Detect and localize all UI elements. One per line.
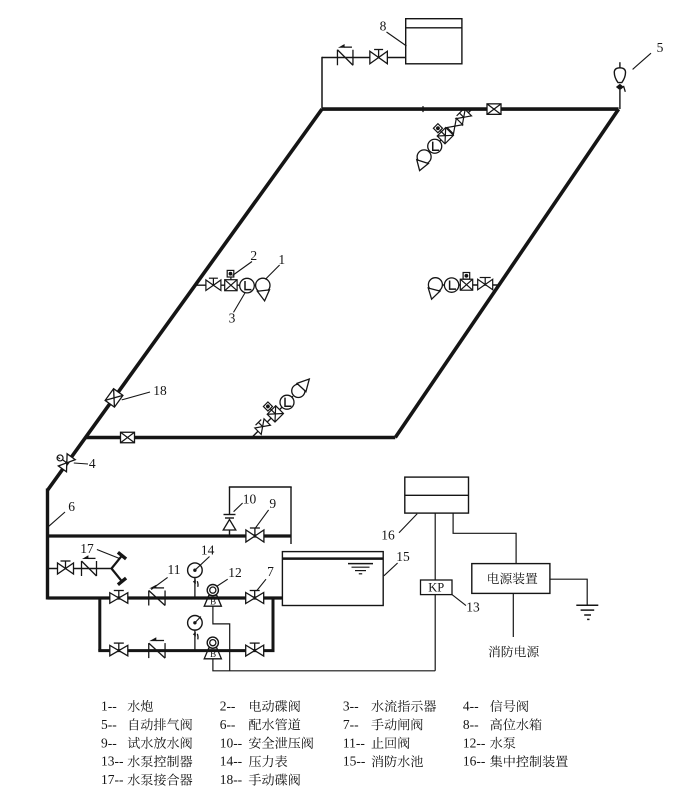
manual butterfly valve 18 on slant [105, 389, 123, 407]
wire pump2 to controller [213, 659, 435, 671]
water level symbol in pool [348, 563, 373, 565]
svg-text:2: 2 [250, 248, 257, 263]
svg-text:B: B [210, 649, 216, 659]
wire box16 to power device [453, 513, 516, 564]
leader for label 12 [217, 579, 228, 586]
wire KP down [434, 595, 436, 671]
fire pump 12 on line 1 [204, 595, 221, 606]
butterfly valve at tank 8 outlet [370, 51, 379, 64]
leader for label 17 [97, 550, 120, 559]
electric actuator on left branch [227, 270, 234, 277]
leader for label 18 [122, 392, 150, 400]
pump line 1 to line 2 right drop [272, 598, 275, 651]
leader for label 8 [387, 32, 407, 46]
svg-text:7--: 7-- [343, 717, 359, 732]
high level water tank 8 [406, 19, 462, 64]
water flow indicator on lower branch [280, 395, 294, 409]
svg-text:3--: 3-- [343, 699, 359, 714]
joint tick on top pipe [422, 106, 424, 112]
svg-text:3: 3 [229, 311, 236, 326]
svg-text:4--: 4-- [463, 699, 479, 714]
manual butterfly valve on upper branch [455, 108, 472, 125]
leader for label 10 [234, 503, 243, 512]
pump line 1 to line 2 left drop [98, 598, 101, 651]
check valve on coupler branch [81, 561, 83, 576]
water cannon on lower branch [292, 384, 305, 397]
pump coupler 17 (siamese) [112, 556, 123, 569]
leader for label 13 [452, 595, 466, 606]
stem to actuator [230, 277, 232, 280]
butterfly valve on upper branch [447, 118, 463, 134]
leader for label 11 [151, 577, 167, 589]
manual gate valve 7 on line 1 [246, 593, 255, 604]
wire power device to ground [550, 579, 587, 605]
main loop left slant pipe (extends to signal valve 4) [48, 109, 322, 490]
svg-text:15: 15 [396, 549, 410, 564]
leader for label 1 [265, 265, 279, 279]
pressure gauge on pump line 2 [194, 630, 196, 651]
svg-text:13: 13 [466, 600, 480, 615]
automatic exhaust valve 5 body [614, 68, 625, 83]
svg-text:16: 16 [381, 528, 395, 543]
manual butterfly valve on left branch [206, 280, 214, 291]
leader for label 2 [233, 262, 253, 276]
signal valve 4 stem and circle [62, 460, 66, 463]
water flow indicator on right branch [444, 278, 458, 292]
electric actuator on right branch [463, 273, 470, 280]
riser to top pipe below tank 8 [321, 57, 323, 109]
leader for label 5 [633, 53, 651, 69]
wire pump1 to controller [213, 606, 230, 671]
leader for label 6 [49, 512, 65, 526]
pump line 1 pipe [48, 596, 283, 599]
pump coupler branch pipe [48, 568, 112, 570]
svg-text:15--: 15-- [343, 754, 366, 769]
check valve at tank 8 outlet [336, 50, 338, 66]
test drain pipe [48, 534, 292, 537]
svg-text:4: 4 [89, 456, 96, 471]
water cannon on left branch [256, 278, 270, 292]
electric actuator on lower branch [263, 402, 272, 411]
svg-text:KP: KP [428, 581, 444, 595]
electric valve on right branch [460, 279, 472, 290]
water cannon on upper branch [417, 150, 431, 164]
svg-text:11--: 11-- [343, 735, 365, 750]
svg-text:5: 5 [657, 40, 664, 55]
leader for label 3 [234, 293, 246, 313]
electric valve on left branch [225, 280, 237, 291]
svg-text:16--: 16-- [463, 754, 486, 769]
svg-text:9--: 9-- [101, 735, 117, 750]
main loop bottom pipe [86, 436, 396, 440]
fire pool tank 15 [282, 552, 383, 606]
svg-text:10--: 10-- [220, 735, 243, 750]
earth ground symbol [576, 604, 598, 606]
svg-text:11: 11 [168, 562, 181, 577]
branch pipe to lower water cannon [252, 396, 293, 437]
svg-text:9: 9 [269, 496, 276, 511]
relief loop left vertical [229, 487, 231, 514]
central control device 16 [405, 477, 469, 513]
electric valve on lower branch [267, 406, 283, 422]
svg-text:17: 17 [80, 541, 94, 556]
pressure gauge 14 on pump line 1 [194, 578, 196, 599]
manual butterfly valve on lower branch [254, 418, 271, 435]
fire power source text [489, 646, 539, 658]
svg-text:8: 8 [380, 19, 387, 34]
svg-text:2--: 2-- [220, 699, 236, 714]
leader for label 15 [384, 563, 398, 576]
leader for label 7 [257, 579, 267, 591]
stem to actuator [466, 278, 468, 280]
butterfly valve on pump line 1 [110, 593, 119, 604]
pump line 2 pipe [98, 649, 274, 652]
branch pipe to upper water cannon [429, 110, 471, 152]
power supply device box [472, 564, 550, 594]
svg-text:B: B [210, 597, 216, 607]
butterfly valve on coupler branch [58, 563, 66, 574]
svg-text:18--: 18-- [220, 772, 243, 787]
wire box16 to KP [434, 513, 436, 580]
svg-text:5--: 5-- [101, 717, 117, 732]
manual gate valve on line 2 [246, 645, 255, 656]
manual butterfly valve on right branch [478, 279, 486, 290]
main loop top pipe [322, 107, 619, 111]
leader for label 9 [255, 510, 269, 529]
svg-text:17--: 17-- [101, 772, 124, 787]
check valve on pump line 2 [148, 643, 150, 658]
electric actuator on upper branch [433, 124, 442, 133]
electric valve on upper branch [437, 128, 453, 144]
svg-text:6: 6 [68, 499, 75, 514]
safety relief valve 10 [224, 514, 236, 516]
leader for label 4 [74, 463, 88, 464]
svg-text:18: 18 [153, 383, 167, 398]
signal valve on bottom pipe [121, 432, 135, 443]
test drain valve 9 [246, 530, 255, 542]
svg-text:10: 10 [243, 492, 257, 507]
pipe from high tank 8 to riser [322, 57, 406, 59]
butterfly valve on pump line 2 [110, 645, 119, 656]
exhaust valve 5 cock [616, 84, 624, 90]
vertical supply riser (node 6 pipe) [46, 489, 49, 600]
svg-text:14: 14 [201, 543, 215, 558]
svg-text:7: 7 [267, 564, 274, 579]
svg-text:13--: 13-- [101, 754, 124, 769]
power supply device text [488, 572, 537, 584]
stem to actuator [268, 406, 275, 413]
svg-text:12: 12 [228, 565, 242, 580]
svg-text:8--: 8-- [463, 717, 479, 732]
water flow indicator on left branch [240, 278, 255, 293]
svg-text:1--: 1-- [101, 699, 117, 714]
wire power device to fire power source [512, 593, 514, 637]
relief loop right vertical [290, 487, 292, 544]
water flow indicator on upper branch [428, 139, 442, 153]
signal valve 4 body [58, 454, 75, 472]
leader for label 16 [399, 514, 417, 533]
main loop right slant pipe [395, 109, 618, 437]
svg-text:14--: 14-- [220, 754, 243, 769]
check valve 11 on pump line 1 [148, 591, 150, 606]
stub pipe to exhaust valve 5 [619, 90, 621, 109]
fire pump on line 2 [204, 648, 221, 659]
water cannon on right branch [428, 278, 442, 292]
relief loop top [229, 486, 292, 488]
pump controller KP box [421, 580, 453, 595]
svg-text:12--: 12-- [463, 735, 486, 750]
signal valve on top pipe [487, 104, 501, 115]
stem to actuator [438, 128, 445, 135]
branch pipe to left water cannon [195, 284, 256, 286]
svg-text:6--: 6-- [220, 717, 236, 732]
branch pipe to right water cannon [442, 284, 499, 286]
